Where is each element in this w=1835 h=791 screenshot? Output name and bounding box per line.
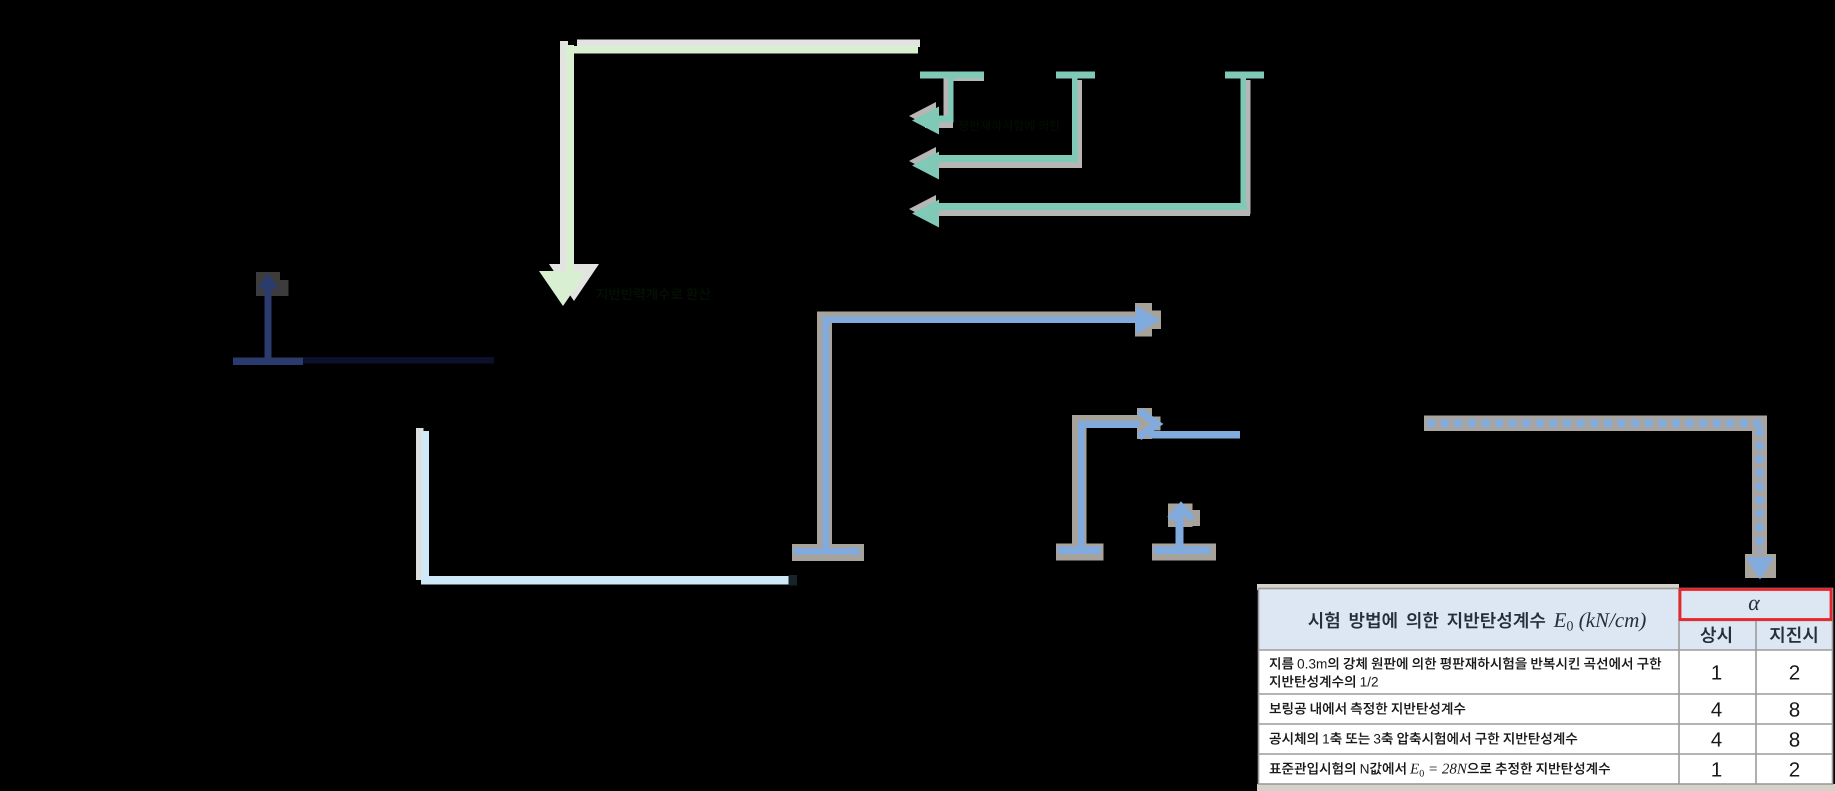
dashed blue arrowhead down (1746, 557, 1774, 580)
value row1 col1: 1 (1712, 665, 1721, 679)
table bottom light band (1257, 784, 1835, 791)
green flow arrow (gray arrowhead) (549, 264, 599, 301)
dark navy baseline extension (303, 357, 494, 364)
dashed blue arrow (blue dashes horizontal) (1427, 419, 1764, 427)
row1 line2 (1270, 675, 1378, 688)
green flow arrowhead down (539, 271, 587, 306)
teal arrow 2 (T-cap, stem, arm, left arrowhead) (912, 72, 1095, 180)
value row4 col2: 2 (1790, 762, 1799, 776)
value row1 col2: 2 (1790, 665, 1799, 679)
teal arrow 2 (gray underlay) (909, 80, 1082, 175)
dashed blue arrow (gray head box) (1745, 554, 1776, 578)
row2 text (1270, 702, 1466, 715)
value row3 col1: 4 (1711, 732, 1721, 746)
table header background (1258, 588, 1833, 650)
green flow arrow vertical segment (566, 45, 574, 272)
column header 상시 (1701, 627, 1732, 644)
dashed blue arrow (gray band vertical) (1752, 416, 1767, 557)
table body background (1258, 650, 1833, 784)
blue arrow 3 (small up arrow: base, stem, head) (1154, 507, 1210, 555)
red highlight box around alpha cell (1680, 590, 1831, 620)
ghost label near green arrowhead (597, 288, 711, 301)
pale cyan connector horizontal (421, 576, 794, 585)
value row2 col1: 4 (1711, 702, 1721, 716)
row1 line1 (1270, 657, 1662, 670)
dark tip at right end of cyan connector (789, 575, 798, 586)
teal arrow 1 (T-cap, stem, arm, left arrowhead) (912, 72, 984, 135)
pale cyan connector (gray underlay vertical) (416, 428, 424, 580)
blue arrow 1 (base, stem, arm, right arrowhead) (794, 306, 1161, 555)
table header text: 시험 방법에 의한 지반탄성계수 E0 (kN/cm) (1308, 612, 1645, 632)
blue arrow 1 (gray underlay: base, stem, arm, head) (792, 303, 1161, 561)
ghost label near teal arrow 1 (959, 120, 1060, 131)
pale cyan connector vertical (421, 431, 429, 581)
teal arrow 3 (gray underlay) (909, 80, 1251, 223)
navy arrow (dark gray shadow boxes) (256, 272, 280, 296)
blue arrow 2 (gray underlay: base, stem, arm, head) (1056, 408, 1161, 561)
column header 지진시 (1770, 627, 1817, 644)
navy up arrow (233, 273, 303, 365)
value row2 col2: 8 (1790, 702, 1800, 717)
table grid lines (1258, 589, 1833, 785)
value row3 col2: 8 (1790, 732, 1800, 747)
green flow arrow horizontal segment (565, 46, 918, 54)
blue horizontal line after arrow 2 (1150, 431, 1240, 439)
green flow arrow (gray underlay vertical) (560, 41, 568, 264)
blue arrow 2 (base, stem, arm, right arrowhead) (1058, 411, 1157, 554)
blue arrow 3 (gray underlay: base, head box) (1152, 504, 1216, 561)
table top light band (1257, 584, 1679, 590)
dashed blue arrow (blue dashes vertical) (1756, 428, 1764, 552)
green flow arrow (gray underlay horizontal) (577, 40, 920, 48)
dashed blue arrow (gray band horizontal) (1424, 416, 1767, 432)
teal arrow 3 (T-cap, stem, arm, left arrowhead) (912, 72, 1264, 228)
value row4 col1: 1 (1712, 762, 1721, 776)
row4 text (1270, 762, 1610, 777)
row3 text (1270, 732, 1578, 745)
teal arrow 1 (gray underlay) (909, 76, 984, 130)
alpha symbol (1749, 600, 1760, 611)
